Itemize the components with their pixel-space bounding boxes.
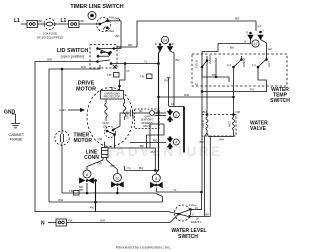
svg-text:VALVE: VALVE [250,126,267,132]
conn 6 circle label [152,174,160,182]
svg-text:CABINET: CABINET [9,133,25,137]
svg-text:YL: YL [173,188,177,192]
svg-text:N: N [41,221,45,227]
svg-text:WH: WH [47,58,52,62]
wire into overload [119,85,121,87]
svg-text:HOT: HOT [267,61,271,67]
long riser x202 down the middle right [201,52,203,193]
svg-text:BU: BU [230,46,234,50]
wire YL from lid switch right [111,63,159,65]
svg-text:BU: BU [176,58,180,62]
svg-text:CENT: CENT [102,121,110,125]
wire down to conn 12 [255,21,257,31]
conn 10 circle label [113,174,121,182]
svg-text:LID SWITCH: LID SWITCH [57,48,89,54]
svg-text:10: 10 [115,176,119,180]
capacitor C1 [130,110,136,117]
timer motor circle [55,131,69,145]
svg-text:PU: PU [250,88,254,92]
inline connector circle [150,111,155,116]
svg-text:FRAME: FRAME [10,138,23,142]
svg-text:WH: WH [184,93,189,97]
wire connector 2 to timer line switch [79,23,100,25]
connector box 2 [69,21,80,28]
bracket between conn2 and conn4 [147,124,165,148]
wire connector to fuse [38,23,45,25]
wts contact 1 wires: PK across box [202,67,229,82]
neutral wire to water level switch [67,214,179,223]
conn 2 triangle pair [169,110,171,112]
neutral wire [48,222,56,224]
wire RD riser up and across top [137,21,256,47]
push contact [106,27,108,29]
svg-text:2: 2 [175,113,177,117]
conn 10 triangle pair [112,182,117,187]
svg-text:WH: WH [100,219,105,223]
valve bottom jumper [207,133,234,137]
conn 8 circle label [83,170,91,178]
svg-text:MOTOR: MOTOR [76,87,96,93]
ground symbol [11,114,20,128]
rail WH 2 (inner) [49,65,100,202]
start winding [123,99,126,120]
rail WH bottom 2 [49,201,163,203]
lid switch middle contact row [101,51,103,53]
svg-text:PK: PK [69,219,73,223]
svg-text:EMPTY: EMPTY [191,220,201,224]
conn 14 circle label [161,36,168,43]
timer line switch cam symbol [88,12,96,20]
wire BU from wts contact1 down to valve [206,61,208,115]
wls common contact [178,213,180,215]
svg-text:PU: PU [164,79,168,83]
svg-text:WARM: WARM [208,55,212,64]
wire BK down to lid switch [120,21,122,45]
svg-text:L1: L1 [14,18,20,24]
wire conn12 left to BU [218,40,251,44]
wire WH from motor right to valve OR [159,97,234,115]
svg-text:6: 6 [155,177,157,181]
wire fuse to connector 2 [55,23,69,25]
conn 2 circle label [173,112,179,118]
water valve enclosure [202,115,236,137]
wts contact 2 common down to valve OR [233,67,235,97]
wire switch to corner, label 44 [108,20,122,22]
lid switch upper contact [114,45,121,49]
svg-text:BK: BK [156,111,160,115]
svg-text:TM: TM [140,75,145,79]
wire BK from motor to conn6 riser [108,135,155,171]
svg-text:16: 16 [171,102,175,106]
lid switch enclosure (dashed) [90,45,117,69]
svg-text:1-2: 1-2 [252,64,256,67]
connector box 1 [27,21,38,28]
svg-text:4: 4 [175,141,177,145]
wire wls empty right BR [190,215,211,217]
wire RD into conn4 [130,142,166,144]
svg-text:C-2: C-2 [227,64,232,67]
svg-text:HOT: HOT [228,121,232,127]
water temp switch enclosure [192,54,287,86]
wire L1 to connector [21,23,27,25]
svg-text:WH: WH [219,138,224,142]
svg-text:R: R [172,43,174,46]
svg-text:BU: BU [203,110,207,114]
overload protector box [101,91,124,100]
wire timer motor down to rail [61,145,63,193]
svg-text:PU: PU [151,150,155,154]
wire conn14 right down BU [170,51,174,107]
svg-text:GND: GND [59,108,67,112]
fuse F1 (10A, dashed circle) [44,19,55,30]
wire M branch down to motor [120,64,126,86]
svg-text:START: START [126,110,130,119]
wire BR from valve down to water level switch [205,133,211,216]
svg-text:12: 12 [254,42,258,46]
drive motor dashed circle [87,88,133,147]
svg-text:LEADVENTURE: LEADVENTURE [93,144,223,159]
svg-text:OVERLOAD: OVERLOAD [105,91,120,95]
svg-text:BK: BK [140,144,144,148]
conn 6 triangle pair [151,183,156,188]
valve coil cold [206,115,208,134]
neutral connector box [56,219,67,226]
svg-text:YL: YL [127,166,131,170]
connector block bar [183,106,185,152]
svg-text:GND: GND [4,110,16,116]
svg-text:SR: SR [139,110,143,113]
wire conn14 left down (thick) [159,51,161,171]
svg-text:WARM: WARM [242,58,246,67]
wire conn12 right down into water temp switch [261,40,267,60]
svg-text:(IF SO EQUIPPED): (IF SO EQUIPPED) [37,36,63,40]
timer line switch contact (dashed circle) [97,18,111,32]
horizontal jog wire to conn6 [125,170,159,174]
wts internal riser [215,58,217,77]
svg-text:GY: GY [258,24,262,28]
svg-text:SWITCH: SWITCH [178,234,198,240]
conn 4 circle label [173,139,179,145]
svg-text:Rendered by LeadVenture, Inc.: Rendered by LeadVenture, Inc. [116,245,171,250]
wts contact 3 common to PU exit [202,67,267,92]
conn 12 circle label [252,40,259,47]
line conn symbol [104,142,106,148]
svg-text:PK: PK [90,206,94,210]
svg-text:TM: TM [107,73,112,77]
svg-text:WH: WH [58,198,63,202]
cent sw contacts [105,127,116,138]
svg-text:(open position): (open position) [61,55,85,59]
thick riser from conn8 area to bottom rail [93,181,96,212]
svg-text:CONN: CONN [84,155,99,161]
wire RD from lid switch to right riser [114,47,137,49]
cap box (export models only) [135,109,160,129]
rail 3 timer motor riser [61,69,63,132]
svg-text:BU: BU [139,166,143,170]
wire wls full to riser [191,209,202,211]
wire conn6 down then YL to water level switch [156,188,201,210]
svg-text:TIMER LINE SWITCH: TIMER LINE SWITCH [70,4,123,10]
svg-text:BK: BK [116,34,120,38]
svg-text:SWITCH: SWITCH [270,98,290,104]
svg-text:H: H [244,40,246,44]
valve coil hot [233,115,235,134]
svg-text:14: 14 [163,39,167,43]
svg-text:MOTOR: MOTOR [74,138,93,144]
svg-text:BK: BK [39,19,43,23]
svg-text:COLD: COLD [195,60,199,68]
main winding [105,99,108,121]
wire through cap box [136,112,150,114]
wire conn8 down to rail [86,183,88,193]
svg-text:BK: BK [81,19,85,23]
wire conn10 down to rail [116,187,118,193]
lid switch lower contact [97,61,99,63]
rail TM bottom [62,193,163,202]
wire PU riser [167,78,170,107]
rail WH 1 (outer) [35,61,98,213]
svg-text:YL: YL [144,60,148,64]
wire cent sw to cap [113,113,130,130]
svg-text:H2: H2 [268,47,272,51]
svg-text:R: R [246,32,248,35]
svg-text:COLD: COLD [201,120,205,128]
lid switch plunger mark [113,65,117,69]
svg-text:L1: L1 [61,18,67,24]
wires OR from line conn down [87,158,103,171]
svg-text:BR: BR [205,212,209,216]
rail bottom outer [35,212,179,215]
water level switch dashed circle [175,205,191,221]
svg-text:PROTECTOR: PROTECTOR [104,95,121,99]
svg-text:PUSH: PUSH [106,29,114,33]
wire BK into conn2 [154,115,166,117]
conn 4 triangle pair [169,137,171,139]
conn 8 triangle pair [80,178,85,183]
wire riser x218 from BU down to wts [202,44,218,52]
svg-text:8: 8 [86,173,88,177]
svg-text:WH: WH [81,65,86,69]
